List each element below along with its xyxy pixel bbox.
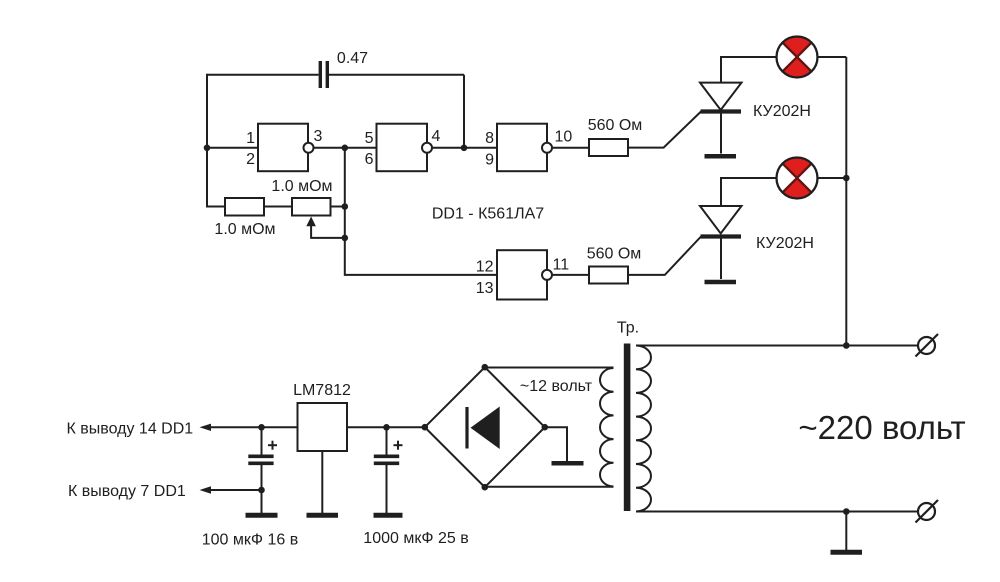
- capacitor C3 bottom lead: [386, 465, 388, 513]
- node G (rail joins top lead): [843, 342, 850, 349]
- transformer T1 primary winding: [636, 346, 651, 512]
- capacitor C2 bottom lead: [261, 465, 263, 513]
- thyristor VS2 triangle: [700, 206, 742, 234]
- ground bar C3: [374, 513, 403, 518]
- wire R2 to vertical rail: [331, 206, 345, 208]
- node B (pin3 net): [342, 145, 349, 152]
- ground bar U2: [307, 513, 339, 518]
- lamp HL2 red sectors: [783, 157, 812, 178]
- ground bar under VS2: [705, 280, 737, 285]
- node J (C3 top): [383, 424, 390, 431]
- arrow to pin7 DD1: [207, 489, 262, 491]
- wire rail pin3-net down to gate4 input: [345, 148, 497, 275]
- node bridge bottom: [482, 484, 489, 491]
- capacitor C3 plates: [374, 454, 399, 458]
- wire gate2 output to gate3: [432, 147, 497, 149]
- svg-text:LM7812: LM7812: [293, 382, 351, 399]
- svg-text:560 Ом: 560 Ом: [587, 245, 642, 262]
- svg-text:КУ202Н: КУ202Н: [756, 235, 814, 252]
- svg-text:100 мкФ 16 в: 100 мкФ 16 в: [202, 531, 299, 548]
- node I (C2 top): [258, 424, 265, 431]
- capacitor C2 plates: [248, 454, 273, 458]
- thyristor VS1 cathode bar: [701, 109, 742, 113]
- node bridge right: [542, 424, 549, 431]
- resistor R4 560 Ом body: [589, 267, 628, 284]
- ground bar C2: [246, 513, 278, 518]
- wire top feedback right segment: [329, 74, 464, 76]
- svg-text:1.0 мОм: 1.0 мОм: [271, 178, 332, 195]
- transformer T1 secondary winding: [600, 368, 614, 487]
- svg-text:1: 1: [246, 130, 255, 147]
- lamp HL2 circle: [777, 158, 818, 199]
- capacitor C3 1000мкФ top lead: [386, 427, 388, 454]
- wire secondary top lead to bridge: [485, 367, 614, 369]
- node H (ground tap on bottom lead): [843, 508, 850, 515]
- svg-text:Тр.: Тр.: [617, 319, 639, 336]
- gate DD1.1 body: [258, 124, 308, 172]
- svg-text:~12 вольт: ~12 вольт: [520, 378, 593, 395]
- wire right vertical to junction: [463, 75, 465, 148]
- svg-text:11: 11: [553, 256, 570, 273]
- thyristor VS2 cathode lead: [720, 239, 722, 280]
- gate DD1.4 body: [497, 250, 547, 299]
- svg-text:КУ202Н: КУ202Н: [753, 103, 811, 120]
- gate DD1.4 output bubble pin11: [542, 270, 552, 280]
- potentiometer R2 wiper arrow: [311, 225, 345, 238]
- wire ground stub: [845, 512, 847, 551]
- wire pin11 to R4: [552, 274, 589, 276]
- node K (pin7 tap): [258, 487, 265, 494]
- thyristor VS1 anode wire: [721, 57, 777, 83]
- terminal X1: [918, 337, 935, 354]
- wire primary bottom lead: [636, 511, 918, 513]
- ground bar under VS1: [705, 154, 737, 159]
- wire HL2 to right rail: [818, 177, 847, 179]
- node C (pin4 net junction to cap): [461, 145, 468, 152]
- capacitor C2 100мкФ top lead: [261, 427, 263, 454]
- wire left vertical: [206, 74, 208, 208]
- svg-text:~220 вольт: ~220 вольт: [798, 409, 965, 446]
- gate DD1.2 output bubble pin4: [422, 143, 432, 153]
- svg-text:6: 6: [365, 151, 374, 168]
- node F (HL2 on rail): [843, 175, 850, 182]
- svg-text:5: 5: [365, 130, 374, 147]
- gate DD1.3 output bubble pin10: [542, 143, 552, 153]
- svg-text:1000 мкФ 25 в: 1000 мкФ 25 в: [363, 530, 468, 547]
- wire primary top lead: [636, 345, 918, 347]
- node A (gate1 input junction): [204, 145, 211, 152]
- wire R1 to R2: [264, 206, 292, 208]
- regulator U2 LM7812 body: [298, 403, 348, 451]
- potentiometer R2 1.0 мОм body: [292, 198, 331, 216]
- node bridge left: [422, 424, 429, 431]
- lamp HL1 cross diagonals: [783, 43, 812, 72]
- capacitor C2 plus sign: [268, 444, 277, 446]
- svg-text:К выводу 7 DD1: К выводу 7 DD1: [68, 483, 186, 500]
- svg-text:1.0 мОм: 1.0 мОм: [214, 221, 275, 238]
- svg-text:4: 4: [432, 128, 441, 145]
- wire +12V rail: [262, 426, 298, 428]
- wire U2 ground lead: [321, 451, 323, 513]
- svg-text:DD1 - К561ЛА7: DD1 - К561ЛА7: [432, 205, 544, 222]
- wire top feedback left segment: [207, 74, 319, 76]
- wire HL1 to right rail: [818, 56, 847, 58]
- ground bar bridge: [552, 461, 584, 466]
- terminal X2: [918, 503, 935, 520]
- lamp HL2 cross diagonals: [783, 164, 812, 193]
- svg-text:560 Ом: 560 Ом: [588, 117, 643, 134]
- node E (wiper on rail): [342, 235, 349, 242]
- bridge diode cathode bar: [465, 407, 468, 449]
- svg-text:9: 9: [485, 151, 494, 168]
- svg-text:10: 10: [555, 128, 573, 145]
- capacitor C3 plus sign: [394, 444, 403, 446]
- bridge diode triangle: [471, 407, 500, 450]
- wire gate1 input: [207, 147, 258, 149]
- wire secondary bottom lead to bridge: [485, 486, 614, 488]
- wire pin10 to R3: [552, 147, 589, 149]
- svg-text:3: 3: [314, 128, 323, 145]
- wire left vertical to R1: [207, 206, 225, 208]
- wire right rail vertical: [845, 57, 847, 346]
- gate DD1.3 body: [497, 124, 547, 172]
- svg-text:12: 12: [476, 258, 494, 275]
- svg-text:К выводу 14 DD1: К выводу 14 DD1: [67, 421, 194, 438]
- ground bar mains: [831, 550, 863, 555]
- lamp HL1 red sectors: [783, 36, 812, 57]
- wire gate1 output to node: [314, 147, 377, 149]
- transformer T1 core: [624, 344, 631, 512]
- node D (R2 right on rail): [342, 203, 349, 210]
- thyristor VS1 triangle: [700, 83, 742, 110]
- svg-text:0.47: 0.47: [337, 50, 368, 67]
- thyristor VS1 cathode lead: [720, 114, 722, 154]
- resistor R3 560 Ом body: [589, 139, 628, 156]
- node bridge top: [482, 364, 489, 371]
- gate DD1.1 output bubble pin3: [304, 143, 314, 153]
- thyristor VS2 cathode bar: [701, 234, 742, 238]
- wire R3 to thyristor gate: [628, 112, 701, 148]
- svg-text:2: 2: [246, 151, 255, 168]
- svg-text:13: 13: [476, 280, 494, 297]
- lamp HL1 circle: [777, 37, 818, 78]
- wire bridge right to ground: [545, 427, 567, 461]
- wire R4 to thyristor2 gate: [628, 237, 701, 275]
- bridge rectifier diamond: [425, 367, 545, 487]
- gate DD1.2 body: [377, 124, 428, 172]
- thyristor VS2 anode wire: [721, 178, 777, 206]
- svg-text:8: 8: [485, 130, 494, 147]
- resistor R1 1.0 мОм body: [225, 198, 264, 216]
- capacitor C1 0.47 plates: [319, 61, 322, 88]
- arrow to pin14 DD1: [207, 426, 262, 428]
